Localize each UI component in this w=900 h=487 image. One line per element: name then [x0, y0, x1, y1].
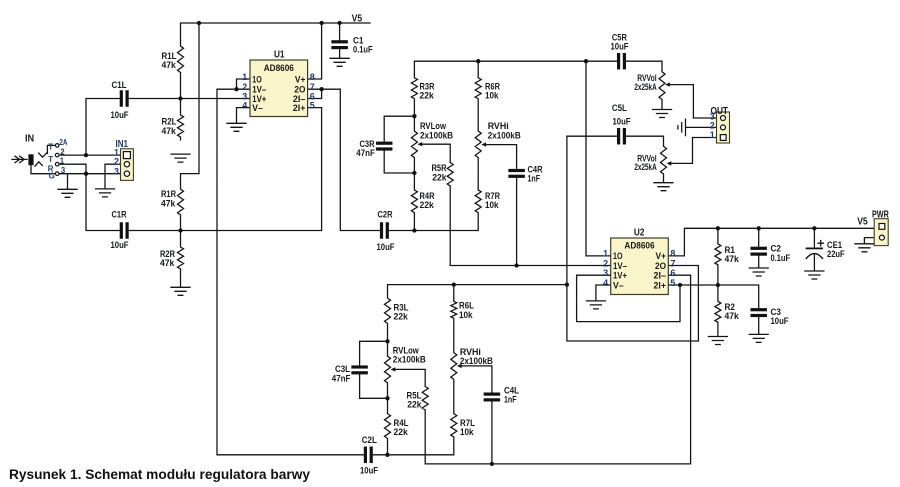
svg-text:47k: 47k: [725, 254, 740, 265]
svg-text:V–: V–: [252, 103, 262, 114]
svg-text:2: 2: [60, 147, 65, 156]
svg-text:1nF: 1nF: [504, 394, 517, 405]
svg-text:2x25kA: 2x25kA: [634, 82, 656, 93]
svg-text:C5L: C5L: [612, 103, 627, 114]
svg-text:10uF: 10uF: [111, 240, 129, 251]
svg-text:10uF: 10uF: [111, 110, 129, 121]
svg-text:AD8606: AD8606: [264, 63, 294, 74]
svg-text:22uF: 22uF: [827, 249, 845, 260]
svg-text:8: 8: [670, 249, 675, 259]
svg-text:1: 1: [710, 130, 715, 140]
svg-text:2x100kB: 2x100kB: [488, 131, 521, 142]
svg-text:6: 6: [670, 268, 675, 278]
svg-text:10uF: 10uF: [360, 465, 378, 476]
svg-text:10uF: 10uF: [611, 42, 629, 53]
svg-text:Rysunek 1. Schemat modułu regu: Rysunek 1. Schemat modułu regulatora bar…: [9, 467, 310, 482]
svg-text:2x25kA: 2x25kA: [634, 162, 656, 173]
svg-text:47k: 47k: [160, 258, 175, 269]
svg-text:C2L: C2L: [362, 435, 377, 446]
svg-text:1: 1: [60, 157, 65, 166]
svg-text:10k: 10k: [460, 427, 474, 438]
svg-text:2x100kB: 2x100kB: [420, 131, 453, 142]
svg-text:10uF: 10uF: [613, 117, 631, 128]
svg-text:10uF: 10uF: [377, 242, 395, 253]
svg-text:V5: V5: [352, 13, 363, 24]
svg-text:22k: 22k: [394, 312, 409, 323]
svg-text:2x100kB: 2x100kB: [393, 354, 426, 365]
svg-text:0.1uF: 0.1uF: [353, 45, 373, 56]
svg-text:2I+: 2I+: [654, 280, 667, 291]
svg-text:G: G: [49, 171, 55, 180]
svg-text:2: 2: [710, 121, 715, 131]
svg-text:22k: 22k: [432, 172, 447, 183]
svg-text:22k: 22k: [394, 427, 409, 438]
svg-text:5: 5: [670, 278, 675, 288]
svg-text:2: 2: [114, 157, 119, 167]
svg-text:C1L: C1L: [112, 80, 127, 91]
svg-text:47k: 47k: [161, 198, 176, 209]
svg-text:22k: 22k: [420, 200, 435, 211]
svg-text:3: 3: [114, 166, 119, 176]
svg-text:8: 8: [310, 72, 315, 82]
svg-text:1: 1: [242, 72, 247, 82]
svg-text:47nF: 47nF: [356, 148, 375, 159]
svg-text:U1: U1: [274, 49, 285, 60]
svg-text:T: T: [48, 143, 53, 152]
svg-text:47k: 47k: [162, 60, 177, 71]
svg-text:22k: 22k: [407, 399, 422, 410]
svg-text:C2R: C2R: [378, 210, 393, 221]
svg-text:3: 3: [603, 268, 608, 278]
svg-text:PWR: PWR: [872, 209, 889, 220]
svg-text:C1R: C1R: [112, 210, 127, 221]
svg-text:10uF: 10uF: [771, 316, 789, 327]
svg-text:47k: 47k: [162, 126, 177, 137]
svg-text:U2: U2: [634, 228, 645, 239]
svg-text:5: 5: [310, 100, 315, 110]
svg-text:2A: 2A: [59, 138, 67, 147]
svg-text:10k: 10k: [485, 200, 499, 211]
svg-text:3: 3: [61, 166, 66, 175]
svg-text:2x100kB: 2x100kB: [460, 356, 493, 367]
svg-text:2I+: 2I+: [293, 103, 306, 114]
svg-text:10k: 10k: [459, 310, 473, 321]
svg-text:V–: V–: [613, 280, 624, 291]
svg-text:4: 4: [603, 278, 608, 288]
svg-text:1: 1: [603, 249, 608, 259]
svg-text:10k: 10k: [485, 91, 499, 102]
svg-text:IN: IN: [25, 134, 34, 145]
svg-text:T: T: [48, 155, 53, 164]
svg-text:47k: 47k: [725, 311, 740, 322]
svg-text:4: 4: [242, 100, 247, 110]
svg-text:47nF: 47nF: [332, 373, 351, 384]
svg-text:AD8606: AD8606: [624, 240, 654, 251]
svg-text:7: 7: [670, 258, 675, 268]
svg-text:0.1uF: 0.1uF: [771, 253, 791, 264]
svg-text:V5: V5: [857, 217, 868, 228]
svg-text:2: 2: [603, 258, 608, 268]
svg-text:1nF: 1nF: [528, 174, 541, 185]
svg-text:22k: 22k: [420, 91, 435, 102]
